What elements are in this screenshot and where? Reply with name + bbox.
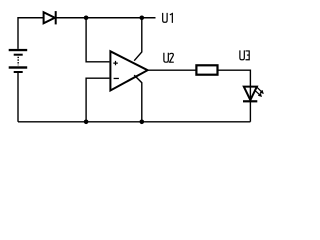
battery dotted cell continuation [17,57,19,66]
LED light arrow 2 [254,90,261,96]
node C junction dot (bottom rail / -input) [84,120,89,125]
wire bottom rail [18,121,250,123]
LED light arrow 1 [256,86,263,93]
wire op-amp V+ pin to top rail [134,18,142,61]
node B junction dot (top rail / V+ pin) [140,15,145,20]
battery B1 [9,49,28,73]
label U3 [240,50,249,59]
node A junction dot (top rail / +input) [84,15,89,20]
label U2 [164,53,174,62]
node D junction dot (bottom rail / V- pin) [140,120,145,125]
wire op-amp V- pin to bottom rail [134,75,142,122]
wire resistor to LED (node U3) [218,70,251,122]
wire top rail left (battery to diode anode) [18,18,43,49]
wire battery bottom to bottom rail [17,73,19,122]
label U1 [163,13,173,23]
op-amp A1 triangle [110,51,147,90]
resistor R1 [196,65,217,74]
wire top rail right (diode cathode to U1 terminal) [56,17,156,19]
diode D1 [44,11,56,24]
wire op-amp output to resistor [147,69,196,71]
op-amp minus sign [114,77,119,79]
op-amp plus sign [113,61,118,65]
LED D2 [243,87,257,102]
wire inverting input from bottom rail [86,78,109,122]
wire non-inverting input from top rail [86,18,109,62]
